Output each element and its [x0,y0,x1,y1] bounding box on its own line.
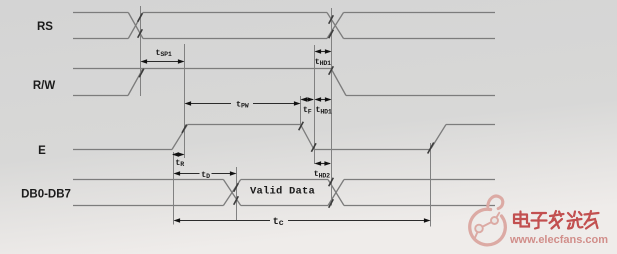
watermark elecfans logo [470,209,506,245]
tick RS left upper [138,13,143,21]
reference line E fall start (x=300.5) [300,96,302,126]
wire DB bottom segment 3 [344,205,495,207]
svg-text:DB0-DB7: DB0-DB7 [21,189,71,201]
wire E low left [73,149,172,151]
svg-text:RS: RS [37,21,53,33]
RS left crossover X [128,13,143,39]
DB right crossover X [328,180,344,206]
tick DB left upper [234,183,239,191]
watermark text 电子发烧友 (stylised) [514,211,599,229]
tHD2 arrow [316,163,331,165]
tick RS right lower [329,30,334,38]
E right rising edge [431,125,446,149]
wire RS bottom segment 3 [344,38,496,40]
wire R/W high [73,68,331,70]
tc arrow [175,220,271,222]
tick E fall bottom [311,143,316,151]
wire DB top segment 2 [241,179,328,181]
tF arrow [302,99,314,101]
wire RS bottom segment 2 [143,38,327,40]
E rising edge [172,125,188,150]
tPW arrow [186,103,232,105]
tick DB left lower [234,196,239,204]
reference line tD right (x=236) [236,167,238,221]
tick RS right upper [329,15,334,23]
wire DB top segment 3 [344,179,495,181]
wire RS top segment 2 [143,12,327,14]
reference line tSP1 right (x=184.5) [184,44,186,158]
wire E low middle [314,149,431,151]
tHD1 upper arrow [316,51,331,53]
tick E rise left [182,125,187,133]
svg-text:tc: tc [273,217,284,228]
R/W rising edge [128,69,143,96]
svg-text:Valid Data: Valid Data [250,186,316,198]
DB left crossover X [223,180,240,206]
tSP1 arrow [142,61,184,63]
R/W falling edge [331,69,346,96]
wire DB top segment 1 [73,179,223,181]
svg-text:E: E [38,145,46,157]
tick RS left lower [138,29,143,37]
wire RS top segment 3 [344,12,496,14]
wire RS bottom segment 1 [73,38,128,40]
E falling edge [301,125,315,150]
wire R/W low right [346,95,495,97]
reference line tD/tc left (x=173) [173,152,175,225]
tHD1 lower arrow [316,99,331,101]
tick DB right upper [329,178,334,186]
tick E fall top [299,122,304,130]
wire E high [188,124,301,126]
tick E right rise [428,143,434,154]
reference line at RS change (x=140) [140,6,142,96]
wire E high right [446,124,495,126]
tick R/W fall top [329,66,334,74]
tD arrow [175,173,200,175]
wire R/W low left [73,95,128,97]
svg-text:R/W: R/W [33,80,56,92]
wire DB bottom segment 1 [73,205,223,207]
svg-text:www.elecfans.com: www.elecfans.com [509,234,608,246]
wire DB bottom segment 2 [241,205,328,207]
tick DB right lower [329,199,334,207]
tick R/W rise top [139,69,144,77]
reference line tc right (x=430) [430,143,432,227]
tR arrow [173,154,184,156]
RS right crossover X [327,13,344,39]
reference line E fall end (x=314) [314,45,316,164]
wire RS top segment 1 [73,12,128,14]
reference line hold right (x=331) [331,8,333,206]
